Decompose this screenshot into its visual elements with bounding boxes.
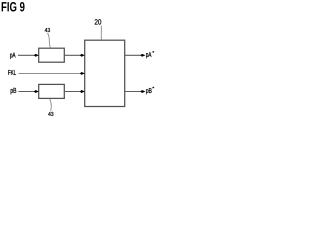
input label FKL <box>8 70 16 75</box>
arrowhead bottom connector into block 20 <box>80 90 85 93</box>
label 43 (top) <box>45 28 50 32</box>
output label pA* <box>146 51 154 58</box>
block 43 (top filter box) <box>39 48 65 62</box>
input label pB <box>11 88 17 95</box>
block 20 (main unit box) <box>85 40 125 106</box>
arrowhead top connector into block 20 <box>80 54 85 57</box>
wire pB input <box>18 91 34 93</box>
block 43 (bottom filter box) <box>39 84 65 98</box>
leader line from label 43 (top) to top box <box>48 33 51 48</box>
wire pA* output <box>125 54 142 56</box>
arrowhead pB* output <box>140 90 145 93</box>
wire from bottom box 43 to block 20 <box>64 91 81 93</box>
leader line from bottom box to label 43 (bottom) <box>50 99 52 111</box>
figure title FIG 9 <box>2 2 25 11</box>
label 20 <box>95 19 102 24</box>
arrowhead pB into bottom box 43 <box>34 90 39 93</box>
wire pB* output <box>125 91 142 93</box>
wire pA input <box>18 54 35 56</box>
arrowhead pA into top box 43 <box>34 54 39 57</box>
arrowhead pA* output <box>140 54 145 57</box>
wire FKL input <box>18 72 80 74</box>
input label pA <box>10 52 15 59</box>
label 43 (bottom) <box>48 112 53 116</box>
output label pB* <box>146 87 154 95</box>
leader line from label 20 to block 20 <box>100 26 102 40</box>
wire from top box 43 to block 20 <box>64 54 81 56</box>
arrowhead FKL into block 20 <box>80 72 85 75</box>
